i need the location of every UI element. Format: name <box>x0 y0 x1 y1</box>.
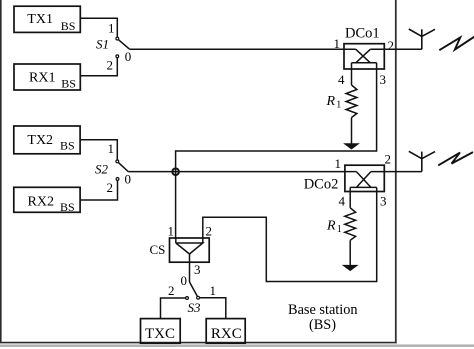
svg-text:1: 1 <box>168 224 175 239</box>
svg-text:1: 1 <box>336 100 341 111</box>
gray page rule at bottom <box>0 344 474 347</box>
svg-text:(BS): (BS) <box>309 317 336 333</box>
block RXC <box>206 319 245 344</box>
switch S2 contact 2 <box>116 178 119 181</box>
wire junction to DCo1 port 3 (up then right) <box>176 69 377 238</box>
wire CS port 2 to DCo2 port 3 <box>203 192 377 282</box>
switch S3 contact 1 <box>197 296 200 299</box>
base station right boundary line <box>395 0 397 343</box>
svg-text:4: 4 <box>339 194 346 209</box>
svg-text:DCo2: DCo2 <box>304 176 339 192</box>
antenna 2 feed wire <box>384 171 422 173</box>
block TXC <box>141 319 181 344</box>
svg-text:4: 4 <box>338 72 345 87</box>
label R1 (lower) <box>326 219 342 236</box>
svg-text:2: 2 <box>107 180 114 195</box>
resistor R1 (upper) <box>346 85 357 118</box>
svg-text:BS: BS <box>61 76 76 90</box>
svg-text:1: 1 <box>334 36 341 51</box>
junction node circle at S2 line <box>172 168 179 175</box>
svg-text:1: 1 <box>337 224 342 235</box>
wire S3 contact 1 to RXC <box>200 298 226 319</box>
svg-text:S1: S1 <box>96 37 109 52</box>
label Base station (BS) <box>288 302 358 333</box>
svg-text:TXC: TXC <box>145 326 175 342</box>
wire TX1 output to S1 contact 1 <box>80 18 117 37</box>
switch S2 lever (1 to 0) <box>118 162 128 171</box>
label R1 (upper) <box>326 94 342 111</box>
svg-text:CS: CS <box>150 242 166 257</box>
svg-text:2: 2 <box>388 38 395 53</box>
svg-text:TX1: TX1 <box>27 12 53 27</box>
coupler DCo2 <box>345 165 384 191</box>
svg-text:TX2: TX2 <box>27 133 53 148</box>
radio wave bolt 1 <box>439 37 474 51</box>
switch S2 contact 1 <box>116 160 119 163</box>
svg-text:0: 0 <box>181 273 188 288</box>
svg-text:BS: BS <box>60 139 75 153</box>
wire DCo2 port 4 to resistor <box>349 192 351 208</box>
switch S1 lever (1 to 0) <box>118 40 129 50</box>
figure bottom border <box>0 342 397 344</box>
svg-text:2: 2 <box>206 224 213 239</box>
svg-text:3: 3 <box>380 72 387 87</box>
antenna 2 <box>409 151 435 171</box>
block TX2 <box>14 126 80 154</box>
svg-text:R: R <box>326 94 336 109</box>
svg-text:2: 2 <box>107 58 114 73</box>
svg-text:RX2: RX2 <box>28 195 54 210</box>
wire S1 pole to DCo1 port 1 <box>130 48 344 50</box>
svg-text:1: 1 <box>108 141 115 156</box>
switch S3 lever (0 to 1) <box>190 282 198 296</box>
svg-text:1: 1 <box>335 156 342 171</box>
antenna 1 <box>409 29 435 49</box>
svg-text:2: 2 <box>168 283 175 298</box>
switch S1 contact 1 <box>116 37 119 40</box>
svg-text:1: 1 <box>108 21 115 36</box>
svg-text:0: 0 <box>125 172 132 187</box>
svg-text:S3: S3 <box>188 300 202 315</box>
coupler DCo1 <box>344 44 384 69</box>
wire RX2 output to S2 contact 2 <box>80 180 117 200</box>
svg-text:0: 0 <box>125 49 132 64</box>
wire S3 contact 2 to TXC <box>161 298 186 319</box>
svg-text:1: 1 <box>210 283 217 298</box>
svg-text:3: 3 <box>194 262 201 277</box>
wire CS output to S3 pole <box>189 262 191 282</box>
antenna 1 feed wire <box>384 48 422 50</box>
svg-text:DCo1: DCo1 <box>345 26 380 42</box>
switch S1 contact 2 <box>116 55 119 58</box>
svg-text:BS: BS <box>60 200 75 214</box>
svg-text:R: R <box>326 219 336 234</box>
figure left border <box>0 0 2 343</box>
wire TX2 output to S2 contact 1 <box>80 140 117 160</box>
wire resistor to ground (upper) <box>351 118 353 145</box>
svg-text:RXC: RXC <box>211 326 242 342</box>
wire RX1 output to S1 contact 2 <box>80 58 117 76</box>
ground (lower) <box>343 265 357 270</box>
svg-text:RX1: RX1 <box>29 71 55 86</box>
wire resistor to ground (lower) <box>349 240 351 265</box>
block RX2 <box>14 187 80 214</box>
block TX1 <box>14 6 80 33</box>
wire DCo1 port 4 to resistor <box>351 69 353 85</box>
wire S2 pole to DCo2 port 1 <box>128 171 345 173</box>
svg-text:2: 2 <box>385 152 392 167</box>
combiner CS <box>170 238 210 262</box>
block RX1 <box>14 64 80 90</box>
svg-text:Base station: Base station <box>288 302 358 318</box>
resistor R1 (lower) <box>345 208 356 241</box>
ground (upper) <box>345 144 359 149</box>
svg-text:BS: BS <box>61 19 76 33</box>
radio wave bolt 2 <box>438 152 473 165</box>
switch S3 contact 2 <box>186 297 189 300</box>
svg-text:3: 3 <box>380 194 387 209</box>
svg-text:S2: S2 <box>95 162 109 177</box>
